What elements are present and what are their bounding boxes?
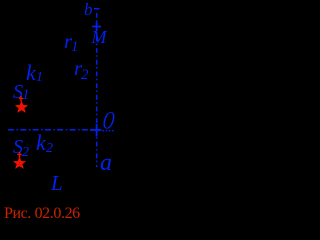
- svg-text:b: b: [84, 0, 93, 19]
- svg-text:M: M: [91, 27, 108, 47]
- svg-text:2: 2: [81, 67, 89, 83]
- wire: top tick of screen line: [94, 8, 100, 10]
- source S2 star: [13, 157, 26, 169]
- wire: vertical dash-dot screen line: [96, 13, 98, 167]
- svg-text:2: 2: [22, 145, 29, 160]
- source S1 star: [15, 101, 28, 113]
- node M cross marker: [92, 22, 101, 31]
- svg-text:Рис. 02.0.26: Рис. 02.0.26: [4, 205, 80, 222]
- svg-text:1: 1: [36, 70, 43, 85]
- wire: dotted axis tail right of O: [103, 130, 115, 132]
- svg-text:L: L: [50, 171, 63, 195]
- node O cross marker: [90, 124, 102, 137]
- wire: horizontal dash-dot axis line: [8, 129, 101, 131]
- svg-text:2: 2: [46, 141, 53, 156]
- svg-text:1: 1: [22, 87, 30, 103]
- svg-text:a: a: [100, 150, 112, 176]
- svg-text:1: 1: [71, 39, 79, 55]
